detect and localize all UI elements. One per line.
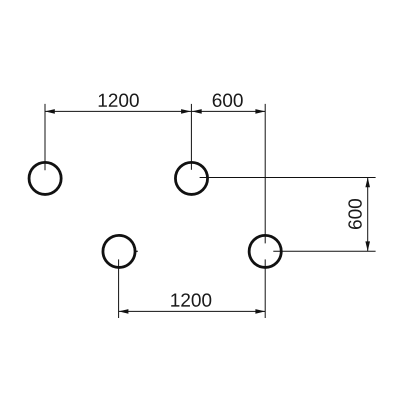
arrowhead right end of 1200 bottom dimension: [255, 309, 265, 314]
extension line from circle 2 right to vertical dimension: [200, 177, 376, 179]
top dimension line: [45, 110, 265, 112]
arrowhead right end of 1200 top dimension: [181, 109, 191, 114]
dimension text 600 (right, rotated): [348, 199, 361, 229]
hole circle 3 (bottom-left): [103, 235, 135, 267]
extension line from circle 4 right to vertical dimension: [273, 250, 375, 252]
hole circle 1 (top-left): [29, 162, 61, 194]
bottom dimension line: [119, 310, 266, 312]
arrowhead bottom end of 600 right dimension: [365, 241, 370, 251]
arrowhead top end of 600 right dimension: [365, 178, 370, 188]
hole circle 4 (right): [249, 235, 281, 267]
hole circle 2 (top-middle): [175, 162, 207, 194]
extension line from circle 2 up to top dimension: [190, 104, 192, 170]
dimension text 1200 (top): [99, 94, 139, 107]
dimension text 600 (top): [213, 94, 243, 107]
arrowhead left end of 1200 bottom dimension: [119, 309, 129, 314]
arrowhead right end of 600 top dimension: [255, 109, 265, 114]
right vertical dimension line: [367, 178, 369, 252]
dimension text 1200 (bottom): [171, 293, 211, 306]
extension line from circle 1 up to top dimension: [44, 104, 46, 170]
arc start nub on circle 3: [136, 251, 138, 253]
arrowhead left end of 1200 top dimension: [45, 109, 55, 114]
arrowhead left end of 600 top dimension: [192, 109, 202, 114]
extension line from circle 4 up to top dimension: [264, 104, 266, 244]
extension line from circle 4 down to bottom dimension: [264, 259, 266, 318]
extension line from circle 3 down to bottom dimension: [118, 259, 120, 318]
